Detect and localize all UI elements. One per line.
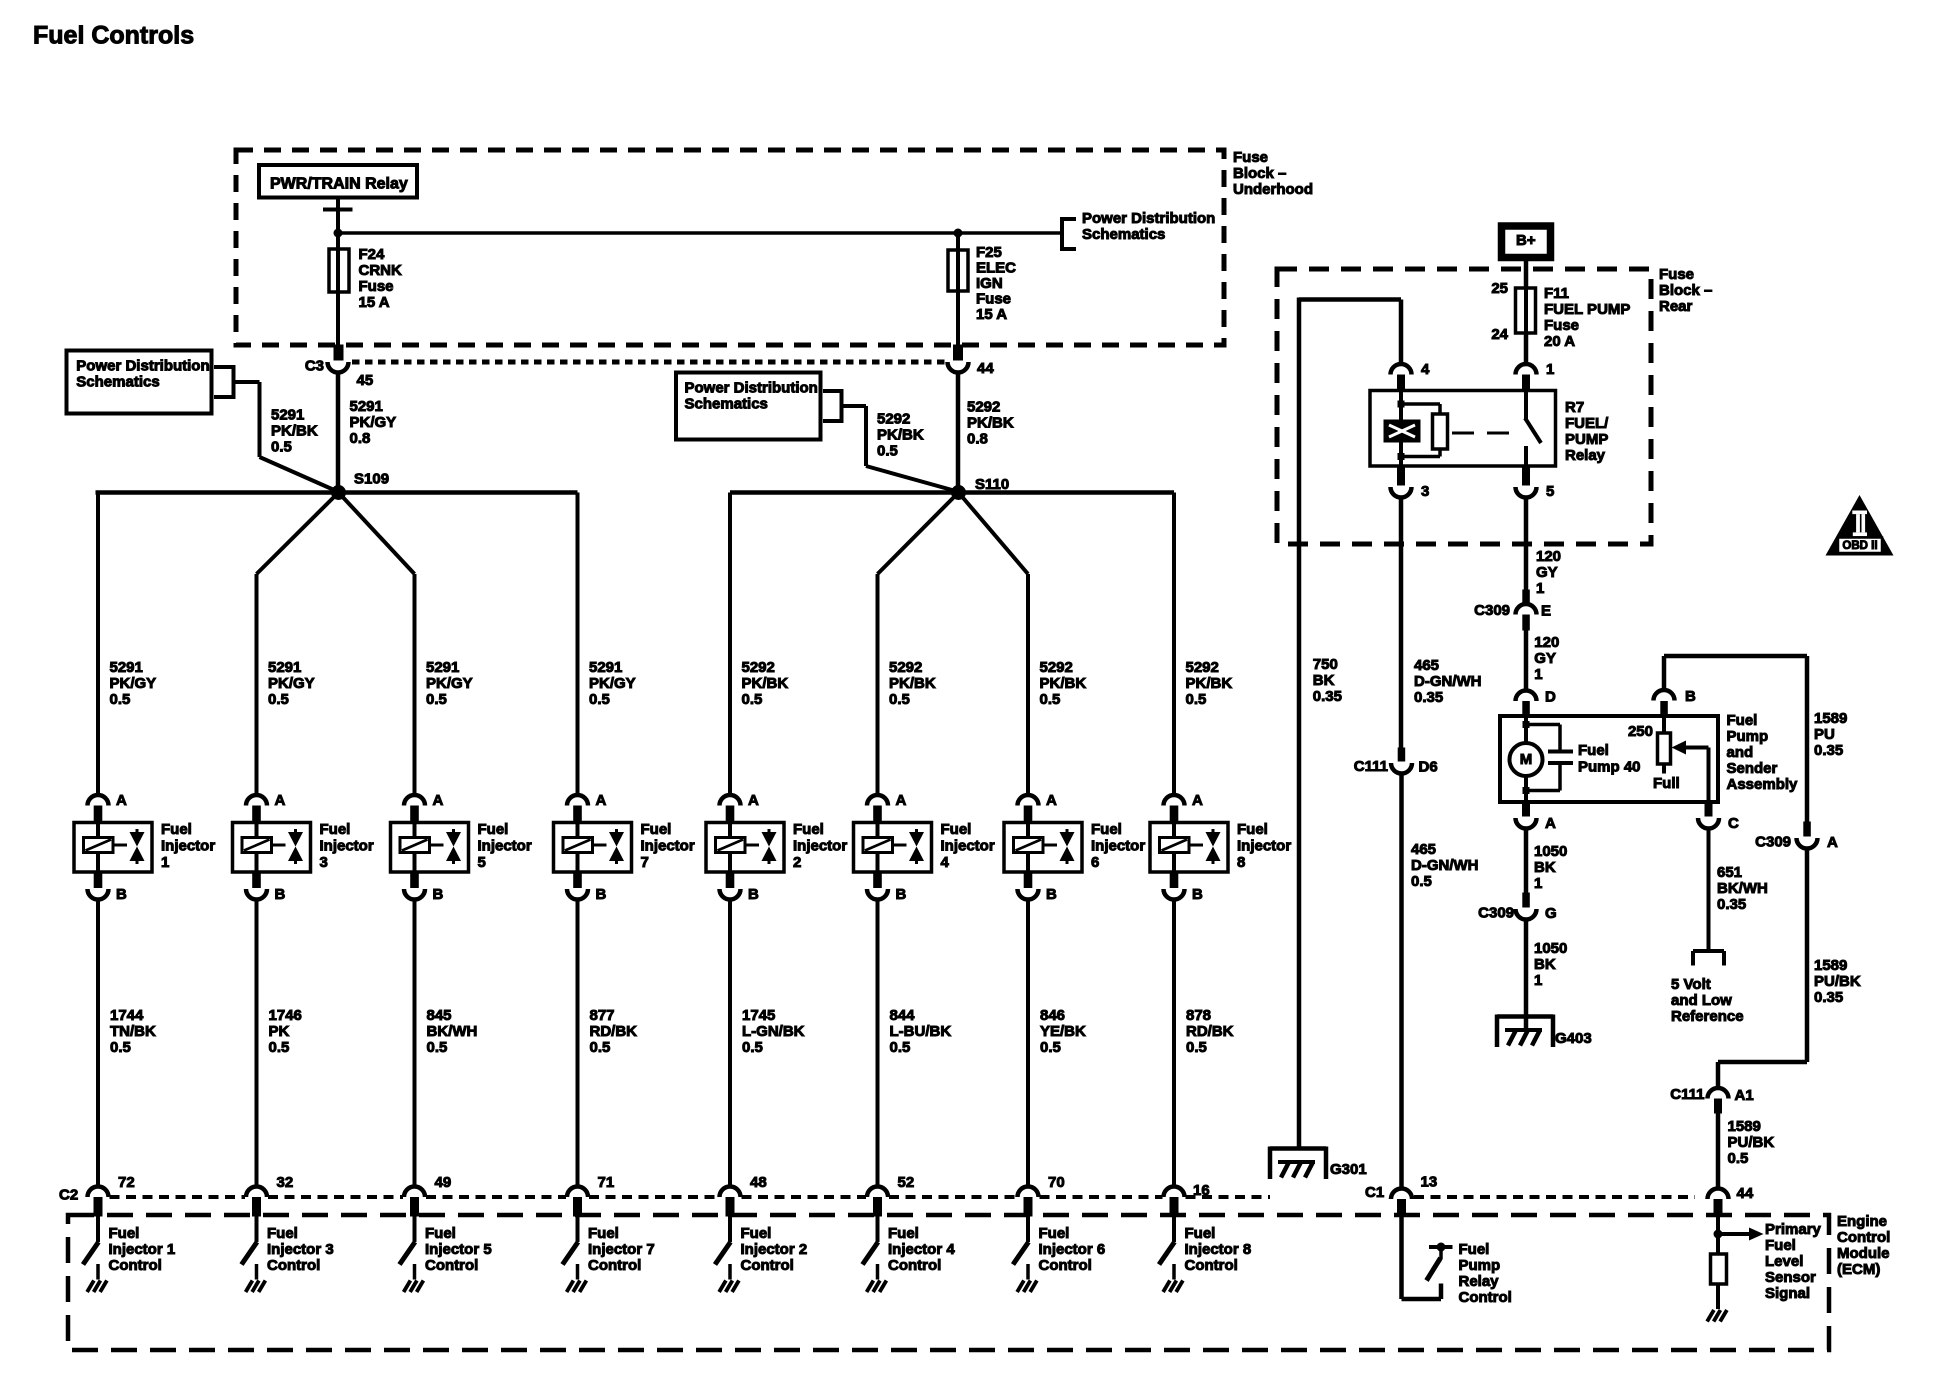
wire: horizontal bus from F24 branch to power distribution bracket: [338, 231, 1060, 235]
svg-text:Full: Full: [1653, 775, 1680, 792]
label: Fuel Injector 5: [478, 821, 532, 871]
label: 5292 PK/BK 0.5 (middle): [877, 410, 924, 459]
svg-text:BK: BK: [1534, 859, 1556, 876]
label: pin B (injector 1): [116, 886, 127, 903]
label: 1746 PK 0.5: [269, 1007, 302, 1056]
svg-text:15 A: 15 A: [359, 294, 390, 311]
svg-text:5291: 5291: [271, 406, 304, 423]
svg-text:Control: Control: [741, 1257, 794, 1274]
connector C2 pin 48 (injector 2 control): [720, 1187, 741, 1217]
svg-text:Injector 2: Injector 2: [741, 1241, 808, 1258]
ground (ECM internal, injector 3): [246, 1281, 266, 1293]
connector pin 5 of relay R7: [1516, 466, 1537, 498]
wire: 5291 PK/GY 0.5 to fuel injector 5: [413, 574, 417, 795]
label: pin C (pump): [1728, 815, 1739, 832]
svg-text:Sensor: Sensor: [1765, 1269, 1816, 1286]
label: 5292 PK/BK 0.5 (injector 6 feed): [1040, 659, 1087, 708]
relay armature: [1401, 402, 1440, 406]
svg-text:Block –: Block –: [1233, 165, 1286, 182]
label: Fuel Injector 4 Control: [888, 1225, 955, 1274]
connector C111 pin D6: [1391, 748, 1412, 774]
connector C2 pin 72 (injector 1 control): [88, 1187, 109, 1217]
OBD II symbol: [1826, 495, 1894, 556]
svg-text:C3: C3: [305, 357, 324, 374]
svg-text:71: 71: [598, 1174, 615, 1191]
svg-text:0.5: 0.5: [426, 691, 447, 708]
svg-text:Pump: Pump: [1727, 728, 1769, 745]
svg-text:and Low: and Low: [1671, 992, 1732, 1009]
svg-text:PK/GY: PK/GY: [589, 675, 636, 692]
svg-text:PK/BK: PK/BK: [1186, 675, 1233, 692]
wire: S109 bus (left group): [96, 490, 578, 495]
label: pin A (injector 1): [116, 792, 127, 809]
svg-text:877: 877: [590, 1007, 615, 1024]
svg-text:Fuel: Fuel: [425, 1225, 456, 1242]
svg-text:YE/BK: YE/BK: [1040, 1023, 1086, 1040]
svg-text:4: 4: [941, 854, 950, 871]
svg-text:0.5: 0.5: [877, 442, 898, 459]
label: pin 1: [1546, 361, 1554, 378]
connector C309 pin A: [1797, 822, 1818, 849]
svg-text:0.35: 0.35: [1717, 896, 1746, 913]
label: pin A (injector 3): [275, 792, 286, 809]
svg-text:0.5: 0.5: [1040, 691, 1061, 708]
svg-text:0.5: 0.5: [1186, 691, 1207, 708]
svg-text:BK: BK: [1313, 672, 1335, 689]
label: 1050 BK 1 (lower): [1534, 940, 1567, 989]
svg-text:C111: C111: [1670, 1086, 1704, 1103]
svg-text:120: 120: [1534, 634, 1559, 651]
label: Fuel Injector 6 Control: [1039, 1225, 1106, 1274]
svg-text:1: 1: [161, 854, 169, 871]
ground (ECM internal, injector 4): [867, 1281, 887, 1293]
label: 1589 PU/BK 0.5: [1728, 1118, 1775, 1167]
svg-text:1746: 1746: [269, 1007, 302, 1024]
svg-text:PU/BK: PU/BK: [1728, 1134, 1775, 1151]
label: Fuel Injector 3 Control: [267, 1225, 334, 1274]
connector ECM pin 44: [1708, 1189, 1729, 1217]
svg-text:845: 845: [427, 1007, 452, 1024]
ground (ECM internal, fuel level): [1707, 1310, 1727, 1322]
svg-text:1: 1: [1534, 875, 1542, 892]
label: 750 BK 0.35: [1313, 656, 1342, 705]
label: C1: [1365, 1184, 1384, 1201]
svg-text:0.5: 0.5: [110, 1039, 131, 1056]
label: F25 ELEC IGN Fuse 15 A: [976, 244, 1016, 323]
connector pin B of fuel injector 8: [1164, 872, 1185, 900]
svg-text:Fuel: Fuel: [641, 821, 672, 838]
svg-text:Fuel: Fuel: [1039, 1225, 1070, 1242]
svg-text:Control: Control: [1039, 1257, 1092, 1274]
svg-text:Fuel: Fuel: [1459, 1241, 1490, 1258]
svg-text:Relay: Relay: [1459, 1273, 1500, 1290]
label: pin B (injector 8): [1192, 886, 1203, 903]
connector pin B of fuel injector 4: [867, 872, 888, 900]
svg-text:Schematics: Schematics: [76, 374, 159, 391]
svg-text:B: B: [748, 886, 759, 903]
label: Fuel Pump Relay Control: [1459, 1241, 1512, 1306]
svg-text:Fuel: Fuel: [1727, 712, 1758, 729]
fuse F25 ELEC IGN 15 A: [948, 233, 968, 345]
connector line C1 (dashed): [1414, 1195, 1695, 1199]
svg-text:0.5: 0.5: [1186, 1039, 1207, 1056]
svg-text:0.5: 0.5: [427, 1039, 448, 1056]
svg-text:5: 5: [1546, 483, 1554, 500]
connector C309 pin G: [1516, 893, 1537, 920]
connector pin A of fuel injector 1: [88, 795, 109, 823]
svg-text:TN/BK: TN/BK: [110, 1023, 156, 1040]
label: 120 GY 1 (lower): [1534, 634, 1559, 683]
label: pin B (injector 3): [275, 886, 286, 903]
svg-text:B: B: [896, 886, 907, 903]
svg-text:1: 1: [1546, 361, 1554, 378]
svg-text:Power Distribution: Power Distribution: [1082, 210, 1215, 227]
svg-text:13: 13: [1421, 1173, 1438, 1190]
label: 877 RD/BK 0.5: [590, 1007, 638, 1056]
svg-text:0.8: 0.8: [967, 430, 988, 447]
wire: 877 RD/BK 0.5 from injector 7 to ECM: [576, 899, 580, 1189]
node: junction at F24 branch: [334, 229, 343, 238]
label: pin B (injector 2): [748, 886, 759, 903]
label: C3: [305, 357, 324, 374]
connector pin B of fuel injector 6: [1018, 872, 1039, 900]
svg-text:15 A: 15 A: [976, 306, 1007, 323]
connector pin A of fuel pump assembly: [1516, 802, 1537, 829]
connector pin 44 (terminal, fuse block underhood): [948, 345, 969, 373]
label: C309 (pin G): [1478, 904, 1514, 921]
label: pin 71: [598, 1174, 615, 1191]
svg-text:Fuel: Fuel: [1185, 1225, 1216, 1242]
wire: 1746 PK 0.5 from injector 3 to ECM: [255, 899, 259, 1189]
svg-text:A: A: [1046, 792, 1057, 809]
svg-text:BK: BK: [1534, 956, 1556, 973]
svg-text:Injector: Injector: [1237, 837, 1291, 854]
svg-text:PK/BK: PK/BK: [271, 422, 318, 439]
wire: PWR/TRAIN relay output down to F24: [336, 198, 340, 253]
svg-text:0.5: 0.5: [1728, 1150, 1749, 1167]
svg-text:Injector 4: Injector 4: [888, 1241, 955, 1258]
connector C309 pin E: [1516, 590, 1537, 630]
svg-text:0.5: 0.5: [1040, 1039, 1061, 1056]
connector C2 pin 71 (injector 7 control): [567, 1187, 588, 1217]
svg-text:Control: Control: [267, 1257, 320, 1274]
connector C2 pin 70 (injector 6 control): [1018, 1187, 1039, 1217]
label: pin A (injector 8): [1192, 792, 1203, 809]
label: Engine Control Module (ECM): [1837, 1213, 1890, 1278]
svg-text:B: B: [1192, 886, 1203, 903]
svg-text:45: 45: [357, 372, 374, 389]
svg-text:20 A: 20 A: [1544, 333, 1575, 350]
wire: 5292 PK/BK 0.5 to fuel injector 4: [876, 574, 880, 795]
label: 5291 PK/GY 0.5 (injector 7 feed): [589, 659, 636, 708]
label: pin 44: [977, 360, 994, 377]
fuel pump and sender assembly (box): [1500, 716, 1718, 802]
svg-text:Power Distribution: Power Distribution: [76, 358, 209, 375]
connector C3 pin 45 (terminal): [328, 345, 349, 372]
svg-text:72: 72: [118, 1174, 135, 1191]
relay PWR/TRAIN Relay (label box): [259, 165, 417, 198]
connector C2 pin 49 (injector 5 control): [404, 1187, 425, 1217]
svg-text:0.5: 0.5: [889, 691, 910, 708]
wire: 1589 PU/BK 0.5 C111 A1 to ECM pin 44: [1716, 1113, 1721, 1188]
wire: 5292 PK/BK 0.5 from bracket to splice S110: [842, 406, 958, 492]
label: Fuel Injector 4: [941, 821, 995, 871]
svg-text:L-GN/BK: L-GN/BK: [742, 1023, 805, 1040]
wire: 844 L-BU/BK 0.5 from injector 4 to ECM: [876, 899, 880, 1189]
svg-text:PK/BK: PK/BK: [877, 426, 924, 443]
svg-text:S109: S109: [354, 470, 389, 487]
svg-text:B: B: [596, 886, 607, 903]
svg-text:PK/GY: PK/GY: [268, 675, 315, 692]
svg-text:0.5: 0.5: [268, 691, 289, 708]
label: R7 FUEL/PUMP Relay: [1565, 399, 1609, 464]
box: Power Distribution Schematics (left): [67, 351, 212, 414]
svg-text:5292: 5292: [877, 410, 910, 427]
svg-text:5292: 5292: [889, 659, 922, 676]
svg-text:A: A: [1545, 815, 1556, 832]
connector pin A of fuel injector 5: [404, 795, 425, 823]
svg-text:and: and: [1727, 744, 1754, 761]
wire: 1050 BK 1 C309 G to ground G403: [1524, 919, 1529, 1031]
svg-text:IGN: IGN: [976, 275, 1003, 292]
label: 5292 PK/BK 0.5 (injector 8 feed): [1186, 659, 1233, 708]
svg-text:0.5: 0.5: [742, 1039, 763, 1056]
svg-text:F11: F11: [1544, 285, 1569, 302]
wire: C309 E to fuel pump pin D (120 GY 1): [1524, 628, 1529, 690]
relay pin tick: [323, 208, 353, 212]
label: 844 L-BU/BK 0.5: [890, 1007, 952, 1056]
box: Power Distribution Schematics (middle): [676, 373, 821, 440]
svg-text:B+: B+: [1516, 232, 1536, 249]
wire: S110 diagonal to injector 4 column: [878, 493, 959, 575]
svg-text:GY: GY: [1534, 650, 1556, 667]
connector pin B of fuel injector 3: [246, 872, 267, 900]
svg-text:G403: G403: [1555, 1030, 1592, 1047]
label: F24 CRNK Fuse 15 A: [359, 246, 402, 311]
label: pin 16: [1193, 1182, 1210, 1199]
label: 1589 PU 0.35: [1814, 710, 1847, 759]
splice S110: [951, 485, 966, 500]
connector line C3 (dotted): [352, 360, 946, 365]
power feed B+: [1502, 226, 1551, 258]
svg-text:0.35: 0.35: [1814, 989, 1843, 1006]
wire: F11 to relay pin 1: [1524, 333, 1529, 364]
svg-text:PK/GY: PK/GY: [110, 675, 157, 692]
svg-text:2: 2: [793, 854, 801, 871]
label: 651 BK/WH 0.35: [1717, 864, 1768, 913]
label: pin 32: [277, 1174, 294, 1191]
svg-text:1744: 1744: [110, 1007, 144, 1024]
svg-text:878: 878: [1186, 1007, 1211, 1024]
svg-text:Injector: Injector: [941, 837, 995, 854]
label: 5292 PK/BK 0.8: [967, 398, 1014, 447]
wire: 1050 BK 1 pump pin A to C309 G: [1524, 828, 1529, 893]
connector pin 4 of relay R7: [1391, 364, 1412, 391]
connector pin A of fuel injector 8: [1164, 795, 1185, 823]
svg-text:1: 1: [1534, 666, 1542, 683]
svg-text:6: 6: [1091, 854, 1099, 871]
fuse F24 CRNK 15 A: [329, 233, 349, 345]
label: pin A (injector 4): [896, 792, 907, 809]
label: 5291 PK/GY 0.5 (injector 1 feed): [110, 659, 157, 708]
svg-text:Rear: Rear: [1659, 298, 1693, 315]
label: pin 4: [1421, 361, 1430, 378]
connector line C2 (dashed): [110, 1195, 1271, 1199]
wire: S110 diagonal to injector 6 column: [959, 493, 1029, 575]
wire: 5291 PK/GY 0.5 to fuel injector 3: [255, 574, 259, 795]
label: Fuel Injector 5 Control: [425, 1225, 492, 1274]
label: pin B: [1685, 688, 1696, 705]
svg-text:Fuel: Fuel: [267, 1225, 298, 1242]
ECM driver switch: fuel injector 4 control: [863, 1216, 879, 1280]
svg-text:52: 52: [898, 1174, 915, 1191]
label: pin 5: [1546, 483, 1554, 500]
label: pin B (injector 4): [896, 886, 907, 903]
label: pin A1: [1735, 1087, 1754, 1104]
ground (ECM internal, injector 5): [404, 1281, 424, 1293]
bracket: power distribution schematics (left): [214, 365, 234, 399]
connector pin B of fuel injector 7: [567, 872, 588, 900]
svg-text:Primary: Primary: [1765, 1221, 1822, 1238]
svg-text:Assembly: Assembly: [1727, 776, 1799, 793]
svg-text:1589: 1589: [1728, 1118, 1761, 1135]
label: 846 YE/BK 0.5: [1040, 1007, 1086, 1056]
label: pin B (injector 7): [596, 886, 607, 903]
label: 878 RD/BK 0.5: [1186, 1007, 1234, 1056]
svg-text:Fuel: Fuel: [1091, 821, 1122, 838]
wire: 5292 PK/BK 0.5 to fuel injector 6: [1026, 574, 1030, 795]
wire: 5291 PK/GY 0.8 from C3 to S109: [336, 373, 341, 489]
label: pin D: [1545, 688, 1556, 705]
svg-text:C309: C309: [1478, 904, 1514, 921]
svg-text:750: 750: [1313, 656, 1338, 673]
svg-text:Engine: Engine: [1837, 1213, 1887, 1230]
svg-text:Fuse: Fuse: [976, 290, 1011, 307]
connector pin A of fuel injector 3: [246, 795, 267, 823]
svg-text:Power Distribution: Power Distribution: [685, 379, 818, 396]
svg-text:5292: 5292: [1040, 659, 1073, 676]
label: pin 45: [357, 372, 374, 389]
signal arrow: primary fuel level sensor signal: [1718, 1228, 1764, 1241]
svg-text:Block –: Block –: [1659, 282, 1712, 299]
wire: 465 D-GN/WH 0.5 C111 to C1 pin 13: [1399, 773, 1404, 1188]
label: pin A (injector 7): [596, 792, 607, 809]
ground (ECM internal, injector 2): [719, 1281, 739, 1293]
svg-text:Underhood: Underhood: [1233, 181, 1313, 198]
svg-text:B: B: [275, 886, 286, 903]
svg-text:RD/BK: RD/BK: [590, 1023, 638, 1040]
svg-text:1589: 1589: [1814, 710, 1847, 727]
svg-text:0.5: 0.5: [271, 438, 292, 455]
svg-text:OBD II: OBD II: [1842, 540, 1877, 552]
svg-text:A: A: [1827, 834, 1838, 851]
wire: relay pin 5 to C309 E (120 GY 1): [1524, 497, 1529, 590]
svg-text:A: A: [116, 792, 127, 809]
svg-text:PU: PU: [1814, 726, 1835, 743]
label: pin D6: [1419, 758, 1438, 775]
svg-text:RD/BK: RD/BK: [1186, 1023, 1234, 1040]
svg-text:PK/BK: PK/BK: [742, 675, 789, 692]
connector pin A of fuel injector 2: [720, 795, 741, 823]
svg-text:44: 44: [977, 360, 994, 377]
connector C2 pin 52 (injector 4 control): [867, 1187, 888, 1217]
svg-text:0.5: 0.5: [110, 691, 131, 708]
label: pin A (C309): [1827, 834, 1838, 851]
svg-text:CRNK: CRNK: [359, 262, 402, 279]
svg-text:Fuse: Fuse: [1233, 149, 1268, 166]
wire: 1589 PU 0.35 pin B up and over to C309 A: [1664, 656, 1807, 822]
label: 5291 PK/GY 0.8: [350, 398, 397, 447]
svg-text:D: D: [1545, 688, 1556, 705]
wire: 1744 TN/BK 0.5 from injector 1 to ECM: [96, 899, 100, 1189]
label: pin A (injector 2): [748, 792, 759, 809]
svg-text:PK/BK: PK/BK: [1040, 675, 1087, 692]
svg-text:A: A: [896, 792, 907, 809]
label: Full: [1653, 775, 1680, 792]
label: Fuel Injector 1: [161, 821, 215, 871]
fuel injector 8: [1150, 823, 1228, 873]
svg-text:E: E: [1541, 602, 1551, 619]
svg-text:B: B: [1685, 688, 1696, 705]
engine control module ECM (dashed box): [68, 1215, 1829, 1350]
wire: 5292 PK/BK 0.8 from pin 44 to S110: [956, 373, 961, 489]
relay R7 FUEL/PUMP Relay: [1370, 391, 1556, 467]
fuse F11 FUEL PUMP 20 A: [1516, 288, 1536, 333]
svg-text:Injector: Injector: [1091, 837, 1145, 854]
ECM driver switch: fuel injector 7 control: [563, 1216, 579, 1280]
fuel injector 1: [74, 823, 152, 873]
svg-text:Control: Control: [1185, 1257, 1238, 1274]
wire: 465 D-GN/WH 0.35 relay pin 3 to C111: [1399, 497, 1404, 748]
svg-text:R7: R7: [1565, 399, 1584, 416]
svg-text:Fuel Controls: Fuel Controls: [33, 22, 194, 50]
connector C2 pin 32 (injector 3 control): [246, 1187, 267, 1217]
svg-text:PK: PK: [269, 1023, 290, 1040]
svg-text:C: C: [1728, 815, 1739, 832]
svg-text:B: B: [116, 886, 127, 903]
svg-text:0.5: 0.5: [590, 1039, 611, 1056]
svg-text:0.5: 0.5: [269, 1039, 290, 1056]
svg-text:F25: F25: [976, 244, 1002, 261]
label: 250: [1628, 723, 1653, 740]
splice S109: [331, 485, 346, 500]
label: 845 BK/WH 0.5: [427, 1007, 478, 1056]
fuse block rear (dashed box): [1277, 269, 1651, 544]
svg-text:5 Volt: 5 Volt: [1671, 976, 1711, 993]
label: pin 49: [435, 1174, 452, 1191]
connector pin B of fuel pump assembly: [1654, 690, 1675, 716]
svg-text:Fuel: Fuel: [793, 821, 824, 838]
label: Fuel Injector 8 Control: [1185, 1225, 1252, 1274]
svg-text:5292: 5292: [742, 659, 775, 676]
svg-text:PUMP: PUMP: [1565, 431, 1608, 448]
bracket: power distribution schematics (top right): [1062, 217, 1076, 251]
svg-text:Control: Control: [425, 1257, 478, 1274]
wire: relay pin 4 branch to ground G301 (750 BK 0.35 upper run): [1299, 298, 1401, 1149]
svg-text:8: 8: [1237, 854, 1245, 871]
svg-text:1589: 1589: [1814, 957, 1847, 974]
label: Primary Fuel Level Sensor Signal: [1765, 1221, 1822, 1302]
label: pin 70: [1048, 1174, 1065, 1191]
svg-text:A: A: [596, 792, 607, 809]
capacitor (pump noise suppressor): [1523, 721, 1574, 794]
svg-text:0.5: 0.5: [890, 1039, 911, 1056]
connector pin B of fuel injector 5: [404, 872, 425, 900]
label: pin 44 (ECM): [1737, 1185, 1754, 1202]
ground G403: [1497, 1015, 1592, 1048]
svg-text:PK/GY: PK/GY: [426, 675, 473, 692]
svg-text:Injector: Injector: [641, 837, 695, 854]
